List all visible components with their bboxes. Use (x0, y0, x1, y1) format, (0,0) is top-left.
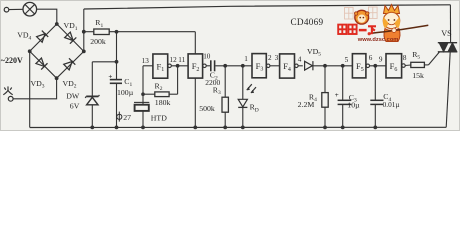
svg-text:5: 5 (345, 56, 349, 64)
svg-text:+: + (108, 74, 112, 81)
svg-text:180k: 180k (155, 98, 171, 107)
svg-text:CD4069: CD4069 (291, 17, 324, 27)
svg-text:+: + (335, 92, 339, 99)
svg-text:1: 1 (244, 55, 248, 63)
svg-text:15k: 15k (412, 71, 424, 80)
svg-text:100µ: 100µ (117, 88, 134, 97)
svg-text:4: 4 (298, 55, 302, 63)
svg-text:0.01µ: 0.01µ (383, 100, 400, 109)
svg-text:11: 11 (178, 56, 185, 64)
svg-text:200k: 200k (90, 37, 106, 46)
svg-text:27: 27 (123, 113, 131, 122)
svg-text:12: 12 (170, 56, 178, 64)
svg-text:6: 6 (369, 54, 373, 62)
svg-text:HTD: HTD (151, 114, 167, 123)
svg-text:10: 10 (203, 53, 211, 61)
svg-text:6V: 6V (70, 101, 80, 110)
svg-text:500k: 500k (199, 104, 215, 113)
svg-text:2.2M: 2.2M (298, 100, 315, 109)
svg-text:8: 8 (403, 54, 407, 62)
svg-text:VS: VS (441, 29, 452, 38)
svg-text:13: 13 (142, 57, 150, 65)
svg-text:2: 2 (268, 54, 272, 62)
svg-text:3: 3 (275, 54, 279, 62)
svg-text:www.dzsc.com: www.dzsc.com (357, 37, 399, 43)
svg-text:10µ: 10µ (347, 100, 360, 109)
svg-text:9: 9 (379, 55, 383, 63)
svg-text:~220V: ~220V (1, 56, 23, 65)
svg-text:DW: DW (66, 92, 80, 101)
